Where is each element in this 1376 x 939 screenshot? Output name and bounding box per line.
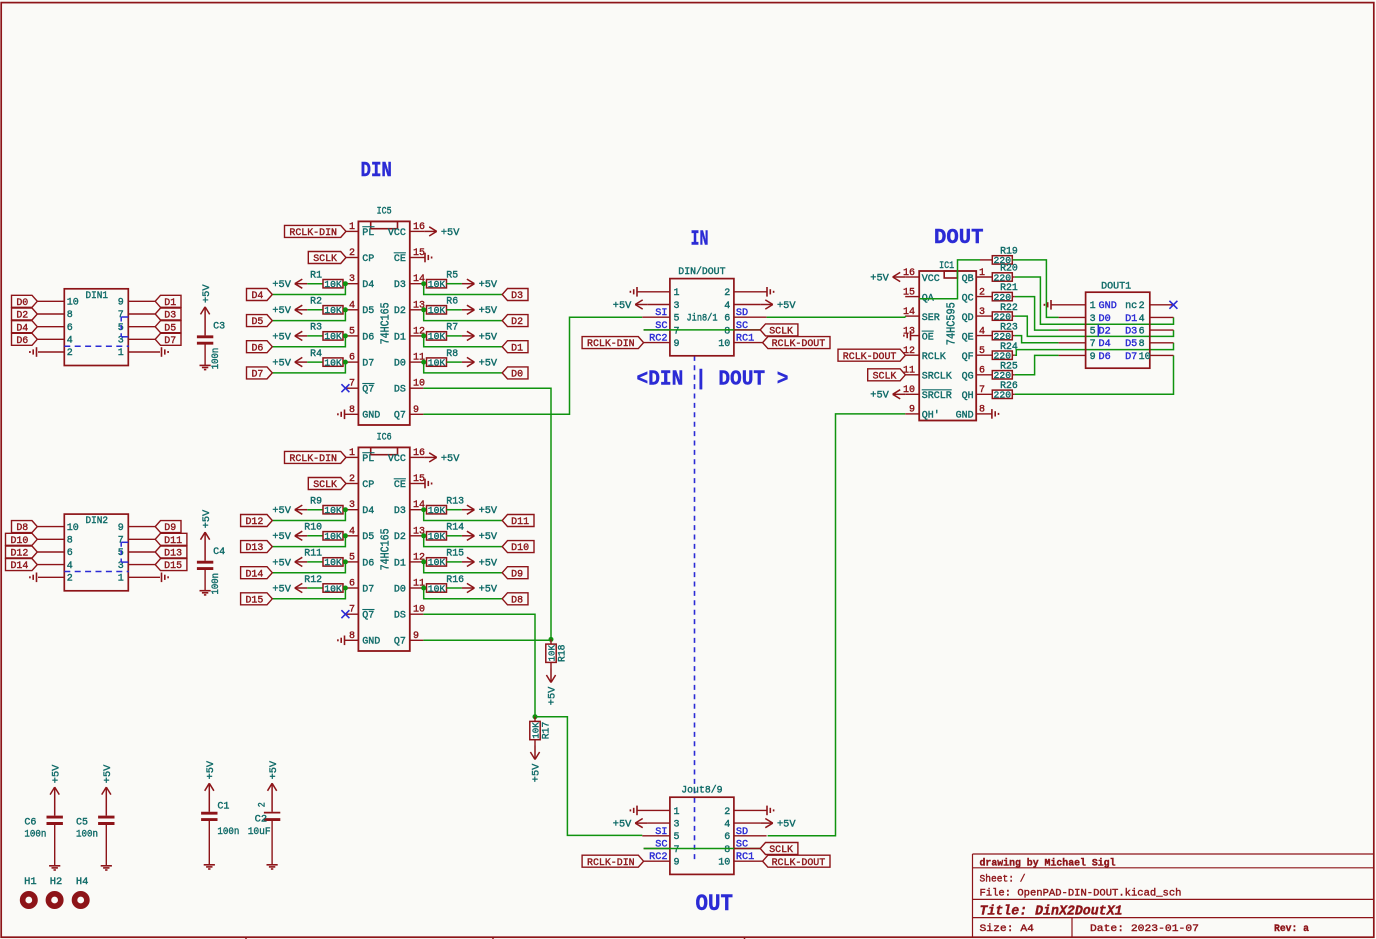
svg-text:7: 7 [1090,339,1096,350]
shift register IC1 74HC595 body [919,271,976,421]
IC6 pin5 D6 [345,561,358,563]
svg-text:+5V: +5V [272,558,291,569]
svg-text:+5V: +5V [548,686,559,705]
IC1 pin2 QC [976,296,992,298]
wire to label D6 [273,336,346,347]
wire to label D13 [273,536,346,547]
svg-text:IC1: IC1 [939,260,954,271]
ground below C6 [54,825,56,866]
DOUT1 graphic blue tick [1097,325,1099,337]
svg-text:1: 1 [118,574,124,585]
svg-text:+5V: +5V [272,358,291,369]
IC1 pin3 QD [976,315,992,317]
IC6 pin14 D3 [410,509,424,511]
DIN1 pin 10 (left) [38,300,65,302]
svg-text:10: 10 [718,858,730,869]
IC6 pin11 D0 [410,587,424,589]
pull-up resistor R6 10K [424,309,427,311]
DOUT1 left pin stubs [1059,316,1086,318]
IC5 pin16 VCC to +5V [410,230,424,232]
svg-text:2: 2 [349,474,355,485]
svg-text:D4: D4 [1099,339,1111,350]
wire R26 (QH) to DOUT1 pin10 [1015,355,1174,394]
global label D11 [502,515,534,527]
svg-text:D12: D12 [245,517,263,528]
Jin8/1 pin10 RC1 with RCLK-DOUT label [734,342,763,344]
svg-text:D4: D4 [362,506,374,517]
global label D7 [247,367,273,379]
DIN1 graphic dashed no-fit lines [120,317,122,337]
+5V at R18 [550,669,552,683]
wire R21 (QC) to DOUT1 pin5 [1015,297,1059,331]
svg-text:Size: A4: Size: A4 [980,923,1035,935]
svg-text:16: 16 [413,222,425,233]
svg-text:6: 6 [1139,327,1145,338]
svg-text:100n: 100n [211,573,222,595]
svg-text:6: 6 [349,353,355,364]
global label D3 [502,289,528,301]
global label D10 [502,541,534,553]
global label D11 [155,533,187,545]
svg-text:CE: CE [394,254,406,265]
svg-text:4: 4 [1139,314,1145,325]
svg-text:D5: D5 [362,306,374,317]
DIN1 pin 5 (right) [128,326,155,328]
svg-text:QB: QB [962,274,974,285]
pull-up resistor R4 10K [295,361,308,363]
capacitor C6 100n [47,816,63,819]
svg-text:GND: GND [956,411,974,422]
svg-text:R10: R10 [304,522,322,533]
svg-text:DIN2: DIN2 [86,515,109,526]
svg-text:+5V: +5V [202,284,213,303]
svg-text:QC: QC [962,293,974,304]
IC5 pin11 D0 [410,361,424,363]
svg-text:74HC165: 74HC165 [380,528,393,570]
DIN2 pin1 ground [161,573,163,583]
global label D1 [502,341,528,353]
Jin8/1 pin6 SD stub [734,316,767,318]
svg-text:D4: D4 [251,291,263,302]
IC1 pin9 QH' serial out [905,413,919,415]
+5V at R17 [534,746,536,760]
svg-text:74HC165: 74HC165 [380,302,393,344]
svg-text:10K: 10K [324,505,342,516]
pull-up resistor R16 10K [424,587,427,589]
ground below C2 [271,821,273,865]
svg-text:+5V: +5V [103,764,114,783]
svg-text:D6: D6 [362,332,374,343]
svg-text:10K: 10K [324,357,342,368]
IC5 pin10 DS [410,387,424,389]
svg-text:R21: R21 [1000,282,1018,293]
svg-text:RC1: RC1 [736,334,754,345]
svg-text:2: 2 [258,802,269,807]
svg-text:5: 5 [349,326,355,337]
svg-text:QD: QD [962,313,974,324]
IC5 pin3 D4 [345,283,358,285]
svg-text:+5V: +5V [479,558,498,569]
global label D10 [6,533,38,545]
svg-text:D6: D6 [362,558,374,569]
wire IC6 Q7 to junction with R18 [423,639,551,641]
DIN2 pin 10 (left) [38,526,65,528]
IC1 pin6 QG [976,374,992,376]
svg-text:R23: R23 [1000,321,1018,332]
svg-text:SC: SC [736,321,748,332]
Jin8/1 pin9 RC2 with RCLK-DIN label [644,342,670,344]
DIN1 pin 3 (right) [128,338,155,340]
Jout8/9 pin6 SD stub [734,835,767,837]
Jin8/1 pin4 to +5V [734,304,760,306]
svg-text:5: 5 [1090,327,1096,338]
svg-text:4: 4 [67,561,73,572]
svg-text:+5V: +5V [272,332,291,343]
IC5 pin9 Q7 serial out [410,413,424,415]
Jout8/9 SC crossing wire pin7 to pin8 [644,848,761,850]
IC6 pin4 D5 [345,535,358,537]
global label D6 [12,333,38,345]
Jout8/9 pin1 to ground [637,809,670,811]
DIN2 pin 1 (right) [128,576,160,578]
svg-text:D14: D14 [10,561,28,572]
+5V above C6 [54,787,56,816]
svg-text:R4: R4 [310,348,322,359]
svg-text:R5: R5 [446,269,458,280]
svg-text:3: 3 [349,500,355,511]
IC5 pin5 D6 [345,335,358,337]
svg-text:SCLK: SCLK [313,254,338,265]
svg-text:7: 7 [979,385,985,396]
svg-text:+5V: +5V [613,301,632,312]
svg-text:9: 9 [909,405,915,416]
svg-text:6: 6 [67,548,73,559]
svg-text:DS: DS [394,385,406,396]
svg-text:+5V: +5V [479,306,498,317]
dashed divider line between DIN and DOUT halves [694,356,696,863]
DOUT1 pin1 to ground [1051,304,1086,306]
IC1 pin11 SRCLK with SCLK label [905,374,919,376]
svg-text:2: 2 [724,807,730,818]
series resistor R24 220 [992,351,1012,359]
capacitor C3 100n [197,335,213,338]
DIN2 pin 7 (right) [128,538,155,540]
H4 mounting hole [75,894,87,906]
svg-text:DOUT1: DOUT1 [1101,280,1131,291]
svg-text:+5V: +5V [479,280,498,291]
ground below C5 [105,825,107,866]
svg-text:4: 4 [724,820,730,831]
svg-text:Sheet: /: Sheet: / [980,873,1026,885]
+5V above C2 [271,783,273,812]
pull-up resistor R10 10K [295,535,308,537]
global label D0 [502,367,528,379]
IC5 pin2 CP with SCLK label [346,257,358,259]
svg-text:C3: C3 [213,322,225,333]
svg-text:RCLK-DIN: RCLK-DIN [289,454,337,465]
IC1 pin16 VCC to +5V [905,276,919,278]
wire to label D9 [424,562,502,573]
svg-text:D2: D2 [1099,327,1111,338]
+5V above C3 [204,307,206,336]
DIN1 pin 9 (right) [128,300,155,302]
svg-text:9: 9 [118,523,124,534]
svg-text:10K: 10K [324,583,342,594]
svg-text:Q7: Q7 [362,611,374,622]
pull-up resistor R3 10K [295,335,308,337]
global label D2 [502,315,528,327]
svg-text:SER: SER [922,313,940,324]
pull-up resistor R2 10K [295,309,308,311]
svg-text:8: 8 [1139,339,1145,350]
IC5 pin1 PL with RCLK-DIN label [346,230,358,232]
svg-text:R22: R22 [1000,302,1018,313]
svg-text:SI: SI [655,827,667,838]
svg-text:R19: R19 [1000,246,1018,257]
svg-text:PL: PL [362,454,374,465]
svg-text:R1: R1 [310,269,322,280]
svg-text:OE: OE [922,332,934,343]
IC5 pin12 D1 [410,335,424,337]
svg-text:VCC: VCC [388,228,406,239]
svg-text:7: 7 [349,379,355,390]
global label D14 [241,567,273,579]
svg-text:RCLK: RCLK [922,352,946,363]
IC6 pin10 DS [410,613,424,615]
IC1 pin7 QH [976,393,992,395]
IC1 pin4 QE [976,335,992,337]
svg-text:Q7: Q7 [394,411,406,422]
svg-text:QH': QH' [922,410,940,422]
svg-text:SCLK: SCLK [769,845,794,856]
resistor R18 10K pulldown [550,639,552,644]
svg-text:D1: D1 [1125,314,1137,325]
svg-text:+5V: +5V [269,760,280,779]
ground below C1 [208,821,210,865]
svg-text:R8: R8 [446,348,458,359]
IC5 pin7 Q7bar no-connect [345,387,358,389]
svg-text:D0: D0 [511,370,523,381]
global label D12 [6,546,38,558]
ground below C3 [204,344,206,365]
svg-text:+5V: +5V [202,509,213,528]
svg-text:D11: D11 [511,517,529,528]
svg-text:10: 10 [718,339,730,350]
svg-text:D14: D14 [245,569,263,580]
svg-text:9: 9 [1090,352,1096,363]
svg-text:Date: 2023-01-07: Date: 2023-01-07 [1090,923,1199,935]
DIN1 pin 1 (right) [128,351,160,353]
svg-text:IC5: IC5 [377,206,392,217]
DOUT1 right pin stubs [1150,316,1174,318]
global label D13 [241,541,273,553]
wire QA to R19 crossing symbol [919,260,980,299]
pull-up resistor R13 10K [424,509,427,511]
svg-text:QE: QE [962,332,974,343]
+5V above C5 [105,787,107,816]
svg-text:2: 2 [1139,301,1145,312]
svg-text:+5V: +5V [272,532,291,543]
svg-text:D7: D7 [362,358,374,369]
svg-text:RCLK-DOUT: RCLK-DOUT [772,858,826,869]
svg-text:10K: 10K [428,583,446,594]
svg-text:D2: D2 [16,311,28,322]
svg-text:D5: D5 [251,317,263,328]
series resistor R25 220 [992,371,1012,379]
wire R24 (QF) to DOUT1 pin8 [1015,343,1174,355]
svg-text:6: 6 [724,832,730,843]
svg-text:+5V: +5V [272,506,291,517]
svg-text:SD: SD [736,308,748,319]
wire to label D5 [273,310,346,321]
+5V above C4 [204,532,206,561]
wire to label D1 [424,336,502,347]
svg-text:1: 1 [674,288,680,299]
svg-text:9: 9 [118,298,124,309]
svg-text:2: 2 [67,574,73,585]
IC6 pin12 D1 [410,561,424,563]
global label D9 [155,521,181,533]
IC1 pin10 SRCLR to +5V [905,393,919,395]
DIN2 pin 6 (left) [38,551,65,553]
wire to label D10 [424,536,502,547]
global label D4 [247,289,273,301]
svg-text:C5: C5 [76,818,88,829]
svg-text:R12: R12 [304,574,322,585]
svg-text:QF: QF [962,352,974,363]
svg-text:SRCLR: SRCLR [922,391,952,402]
DIN1 pin 7 (right) [128,313,155,315]
svg-text:+5V: +5V [479,332,498,343]
svg-text:10K: 10K [428,357,446,368]
svg-text:D15: D15 [245,595,263,606]
wire to label D12 [273,510,346,521]
wire to label D11 [424,510,502,521]
junction at R18 [549,637,554,642]
shift register IC6 74HC165 body [358,447,409,651]
svg-text:5: 5 [674,832,680,843]
capacitor C5 100n [98,816,114,819]
DIN1 pin 6 (left) [38,326,65,328]
svg-text:Rev: a: Rev: a [1274,923,1310,935]
svg-text:H1: H1 [24,877,37,888]
svg-text:1: 1 [979,268,985,279]
DIN2 pin2 ground [36,573,38,583]
pull-up resistor R7 10K [424,335,427,337]
svg-text:10K: 10K [428,331,446,342]
svg-text:R6: R6 [446,296,458,307]
svg-text:+5V: +5V [479,532,498,543]
svg-text:2: 2 [67,348,73,359]
DIN1 pin1 ground [161,347,163,357]
global label D6 [247,341,273,353]
wire junction to Jout SI via R17 node [535,717,642,836]
wire R23 (QE) to DOUT1 pin7 [1015,336,1059,343]
svg-text:D5: D5 [362,532,374,543]
svg-text:7: 7 [674,845,680,856]
svg-text:R18: R18 [556,644,567,662]
connector DIN2 [64,514,128,591]
junction at R17 [533,714,538,719]
global label D1 [155,295,181,307]
svg-text:R9: R9 [310,495,322,506]
title block [973,853,1375,855]
svg-text:CP: CP [362,480,374,491]
svg-text:Q7: Q7 [394,637,406,648]
wire to label D8 [424,588,502,599]
global label D0 [12,295,38,307]
svg-text:SRCLK: SRCLK [922,372,952,383]
global label D9 [502,567,528,579]
svg-text:RCLK-DOUT: RCLK-DOUT [772,339,826,350]
frame division tick 1 [245,937,247,939]
svg-text:+5V: +5V [441,454,460,465]
svg-text:3: 3 [1090,314,1096,325]
Jout8/9 pin8 stub with SCLK label [734,848,760,850]
wire to label D0 [424,362,502,373]
svg-text:10K: 10K [428,279,446,290]
wire to label D7 [273,362,346,373]
svg-text:Jin8/1: Jin8/1 [687,313,718,324]
svg-text:D0: D0 [1099,314,1111,325]
svg-text:D9: D9 [511,569,523,580]
svg-text:3: 3 [674,820,680,831]
global label D4 [12,321,38,333]
svg-text:8: 8 [67,310,73,321]
svg-text:15: 15 [903,287,915,298]
svg-text:10: 10 [67,298,79,309]
DIN2 pin 3 (right) [128,564,155,566]
connector DIN1 [64,289,128,366]
svg-text:6: 6 [67,323,73,334]
svg-text:4: 4 [724,301,730,312]
IC6 pin13 D2 [410,535,424,537]
series resistor R20 220 [992,273,1012,281]
svg-text:10: 10 [413,379,425,390]
svg-text:5: 5 [674,314,680,325]
IC6 pin9 Q7 serial out [410,639,424,641]
svg-text:D4: D4 [362,280,374,291]
svg-text:+5V: +5V [777,301,796,312]
ground below C4 [204,570,206,591]
pull-up resistor R12 10K [295,587,308,589]
global label D8 [12,521,38,533]
DOUT1 pin2 no-connect [1150,304,1174,306]
svg-text:+5V: +5V [272,584,291,595]
svg-text:PL: PL [362,228,374,239]
svg-text:D0: D0 [16,298,28,309]
Jin8/1 pin7 SC stub [644,329,670,331]
svg-text:D15: D15 [164,561,182,572]
svg-text:CP: CP [362,254,374,265]
svg-text:+5V: +5V [272,306,291,317]
svg-text:drawing by Michael Sigl: drawing by Michael Sigl [980,857,1116,869]
svg-text:R16: R16 [446,574,464,585]
frame division tick 3 [744,937,746,939]
svg-text:+5V: +5V [479,506,498,517]
svg-text:IN: IN [691,228,709,252]
svg-text:9: 9 [413,631,419,642]
svg-text:+5V: +5V [479,358,498,369]
svg-text:C4: C4 [213,547,225,558]
svg-text:R3: R3 [310,322,322,333]
svg-text:D3: D3 [164,311,176,322]
svg-text:2: 2 [349,248,355,259]
svg-text:10K: 10K [428,557,446,568]
DIN2 pin 5 (right) [128,551,155,553]
svg-text:+5V: +5V [777,820,796,831]
svg-text:R15: R15 [446,548,464,559]
